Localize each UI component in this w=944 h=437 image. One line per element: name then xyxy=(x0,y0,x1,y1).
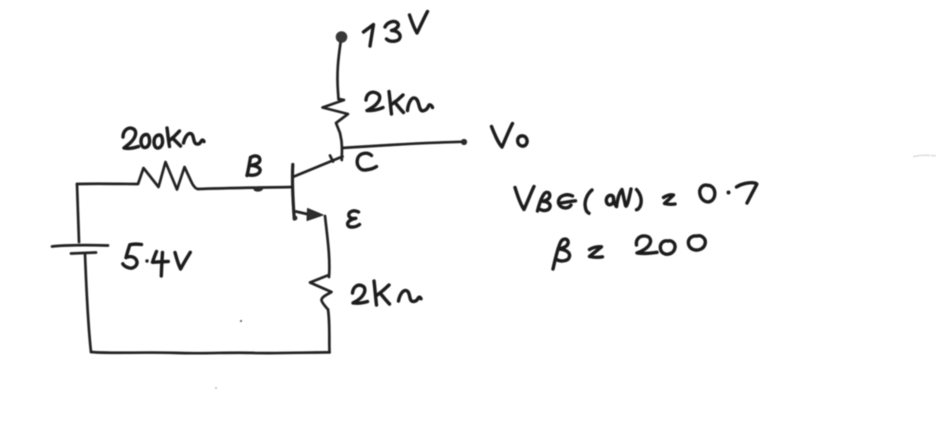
node 13V supply terminal dot xyxy=(336,31,348,43)
wire collector node to Vo xyxy=(342,142,461,148)
emitter stroke xyxy=(296,212,309,215)
resistor RB 200K (base resistor) xyxy=(77,162,198,190)
battery V1 positive plate (long) xyxy=(52,245,108,246)
wire 13V dot down to RC xyxy=(337,43,340,99)
wire emitter down to RE xyxy=(325,216,329,277)
faint smudge right margin xyxy=(914,155,935,156)
faint stray speck lower left xyxy=(215,387,217,389)
wire RE to bottom rail xyxy=(328,310,330,353)
label B xyxy=(247,156,260,176)
label 13V xyxy=(364,12,428,47)
transistor emitter arrowhead xyxy=(307,209,323,221)
node B junction blob xyxy=(253,186,263,192)
wire left vertical upper (top-left corner down to battery) xyxy=(77,184,79,242)
stray pen dot xyxy=(240,320,242,322)
annotation beta = 200 xyxy=(553,236,705,269)
wire left vertical lower (battery to bottom rail) xyxy=(85,254,91,352)
label Vo xyxy=(492,124,528,148)
annotation VBE(ON) = 0.7 xyxy=(515,183,757,214)
small tick on collector xyxy=(330,156,333,162)
label 200K xyxy=(123,128,204,148)
transistor Q1 (NPN) xyxy=(293,156,343,220)
node Vo terminal dot xyxy=(461,139,467,145)
label 5.4V xyxy=(123,244,191,276)
resistor RE 2K (emitter resistor) xyxy=(310,276,332,310)
collector stroke xyxy=(294,157,343,177)
battery V1 negative plate (short) xyxy=(71,253,96,254)
label 2K (RE) xyxy=(353,281,422,305)
label E xyxy=(348,211,360,227)
wire bottom rail xyxy=(91,352,330,353)
base bar xyxy=(293,165,295,220)
resistor RC 2K (collector resistor) xyxy=(323,99,349,160)
wire base (from RB to base bar) xyxy=(198,187,292,189)
label C xyxy=(357,153,376,170)
label 2K (RC) xyxy=(366,92,433,115)
transistor base bar foot blob xyxy=(293,216,298,221)
